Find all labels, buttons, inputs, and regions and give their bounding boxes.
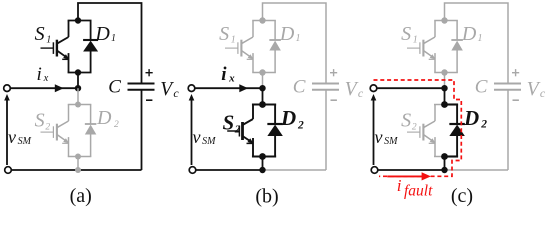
- wire capacitor to bottom bus (c): [507, 90, 509, 170]
- node emitter rail S2/D2 left grey (c): [434, 156, 445, 158]
- label - (b): [331, 99, 337, 101]
- svg-text:S: S: [35, 110, 45, 132]
- label + (a): [146, 72, 153, 74]
- capacitor C (b) plates: [312, 83, 339, 85]
- node collector rail S2/D2 (b): [252, 103, 276, 105]
- fault current path (c) red dashed: [374, 80, 462, 176]
- label - (c): [513, 99, 519, 101]
- svg-text:2: 2: [412, 123, 417, 133]
- transistor S1 (a): [41, 21, 70, 73]
- svg-text:S: S: [401, 110, 411, 132]
- wire bottom bus right grey (b): [263, 169, 327, 171]
- svg-text:C: C: [475, 77, 488, 98]
- transistor S2 (b): [227, 105, 253, 157]
- label + (b): [330, 72, 337, 74]
- node collector rail S2/D2 right black (c): [445, 103, 459, 105]
- terminal vSM (c): [371, 167, 378, 174]
- node collector rail S1/D1 (b): [252, 20, 276, 22]
- label - (a): [146, 99, 152, 101]
- svg-text:v: v: [375, 127, 383, 147]
- node emitter rail S2/D2 right black (c): [445, 155, 459, 157]
- svg-text:c: c: [358, 86, 364, 100]
- svg-text:(a): (a): [70, 185, 92, 207]
- svg-text:V: V: [527, 79, 541, 100]
- node dot ix (a): [75, 85, 81, 91]
- svg-text:1: 1: [231, 35, 236, 46]
- junction dot lower rail bottom (b): [259, 153, 266, 160]
- node collector rail S1/D1 (c): [434, 20, 458, 22]
- node emitter rail S1/D1 (b): [252, 72, 276, 74]
- arrowhead ix (b): [239, 84, 248, 92]
- junction dot top rail (c): [441, 17, 447, 23]
- wire lower device to bottom bus (a): [77, 157, 79, 171]
- svg-text:x: x: [43, 73, 49, 84]
- node dot ix (b): [259, 85, 265, 91]
- junction dot lower rail bottom (a): [75, 154, 81, 160]
- node dot ix (c): [441, 85, 447, 91]
- svg-text:2: 2: [297, 120, 304, 132]
- junction dot bottom bus (c): [441, 167, 447, 173]
- wire bottom bus left (b): [196, 169, 263, 171]
- svg-text:C: C: [293, 77, 306, 98]
- arrow vSM (b): [191, 100, 193, 166]
- node emitter rail S1/D1 (c): [434, 72, 458, 74]
- wire bottom bus right grey (c): [445, 169, 509, 171]
- node emitter rail S1/D1 (a): [68, 72, 92, 74]
- arrow vSM (c): [373, 100, 375, 166]
- wire upper-device to ix node (b): [262, 73, 264, 89]
- wire bottom bus left (c): [378, 169, 445, 171]
- diode D1 (a): [83, 21, 98, 73]
- svg-text:D: D: [280, 106, 296, 130]
- arrow i_fault (c): [387, 175, 423, 177]
- terminal ix (a): [4, 85, 11, 92]
- svg-text:v: v: [8, 127, 16, 147]
- wire capacitor to bottom bus (b): [325, 90, 327, 170]
- label + (c): [512, 72, 519, 74]
- svg-text:D: D: [463, 106, 479, 130]
- svg-text:2: 2: [45, 123, 50, 133]
- svg-text:S: S: [401, 23, 411, 45]
- wire capacitor to bottom bus (a): [141, 90, 143, 170]
- wire ix (c): [377, 87, 445, 89]
- wire lower device to bottom bus (c): [444, 157, 446, 171]
- svg-text:i: i: [397, 176, 402, 195]
- svg-text:1: 1: [478, 33, 483, 44]
- junction dot bottom bus (a): [75, 167, 81, 173]
- svg-text:c: c: [540, 86, 546, 100]
- junction dot top rail (a): [75, 17, 81, 23]
- svg-text:2: 2: [234, 124, 241, 136]
- svg-text:fault: fault: [404, 183, 433, 200]
- svg-text:SM: SM: [384, 136, 398, 147]
- svg-text:i: i: [221, 64, 227, 85]
- wire top bus (c): [445, 3, 509, 84]
- arrowhead ix (a): [55, 84, 64, 92]
- transistor S1 (b): [225, 21, 254, 73]
- diode D1 (c): [451, 21, 463, 73]
- transistor S2 (a): [41, 105, 70, 157]
- svg-text:SM: SM: [18, 136, 32, 147]
- svg-text:D: D: [96, 107, 112, 129]
- svg-text:(b): (b): [255, 186, 278, 208]
- wire ix (b): [195, 87, 263, 89]
- node collector rail S2/D2 (a): [68, 104, 92, 106]
- wire upper-device to ix node (c): [444, 73, 446, 89]
- junction dot lower rail top (a): [75, 102, 81, 108]
- wire lower device to bottom bus (b): [262, 157, 264, 171]
- svg-text:D: D: [279, 23, 295, 45]
- svg-text:x: x: [228, 72, 235, 84]
- node emitter rail S2/D2 (a): [68, 156, 92, 158]
- node emitter rail S2/D2 (b): [252, 155, 276, 157]
- diode D2 (c): [449, 105, 465, 157]
- wire ix (a): [10, 87, 78, 89]
- svg-text:C: C: [108, 77, 121, 98]
- terminal ix (b): [188, 85, 195, 92]
- terminal ix (c): [370, 85, 377, 92]
- junction dot bottom bus (b): [259, 167, 265, 173]
- capacitor C (c) plates: [494, 83, 521, 85]
- svg-text:S: S: [223, 111, 235, 135]
- svg-text:(c): (c): [451, 185, 473, 207]
- junction dot top rail (b): [259, 17, 265, 23]
- svg-text:D: D: [94, 23, 110, 45]
- svg-text:2: 2: [480, 119, 487, 131]
- wire ix node to lower device (c): [444, 88, 446, 104]
- wire top bus (b): [263, 3, 327, 84]
- svg-text:i: i: [37, 64, 42, 85]
- wire ix node to lower device (b): [262, 88, 264, 104]
- terminal vSM (a): [5, 167, 12, 174]
- diode D2 (a): [85, 105, 97, 157]
- svg-text:S: S: [35, 23, 45, 45]
- wire upper-device to ix node (a): [77, 73, 79, 89]
- svg-text:1: 1: [46, 35, 51, 46]
- svg-text:1: 1: [296, 33, 301, 44]
- svg-text:2: 2: [114, 120, 119, 130]
- junction dot mid-upper rail (a): [75, 69, 81, 75]
- node collector rail S1/D1 (a): [68, 20, 92, 22]
- wire top bus (a): [78, 3, 142, 84]
- junction dot mid-upper rail (b): [259, 69, 265, 75]
- svg-text:SM: SM: [202, 136, 216, 147]
- wire ix node to lower device (a): [77, 88, 79, 104]
- svg-text:1: 1: [111, 33, 116, 44]
- svg-text:v: v: [193, 127, 201, 147]
- svg-text:1: 1: [413, 35, 418, 46]
- diode D1 (b): [269, 21, 281, 73]
- svg-text:S: S: [219, 23, 229, 45]
- svg-text:D: D: [461, 23, 477, 45]
- junction dot mid-upper rail (c): [441, 69, 447, 75]
- junction dot lower rail top (b): [259, 101, 266, 108]
- node collector rail S2/D2 left grey (c): [434, 104, 445, 106]
- terminal vSM (b): [189, 167, 196, 174]
- transistor S2 (c): [407, 105, 436, 157]
- diode D2 (b): [267, 105, 283, 157]
- transistor S1 (c): [407, 21, 436, 73]
- junction dot lower rail top (c): [441, 101, 448, 108]
- svg-text:c: c: [173, 86, 179, 100]
- capacitor C (a) plates: [128, 83, 155, 85]
- svg-text:V: V: [160, 79, 174, 100]
- wire bottom bus (a): [11, 169, 141, 171]
- svg-text:V: V: [345, 79, 359, 100]
- arrow vSM (a): [6, 100, 8, 166]
- junction dot lower rail bottom (c): [441, 153, 448, 160]
